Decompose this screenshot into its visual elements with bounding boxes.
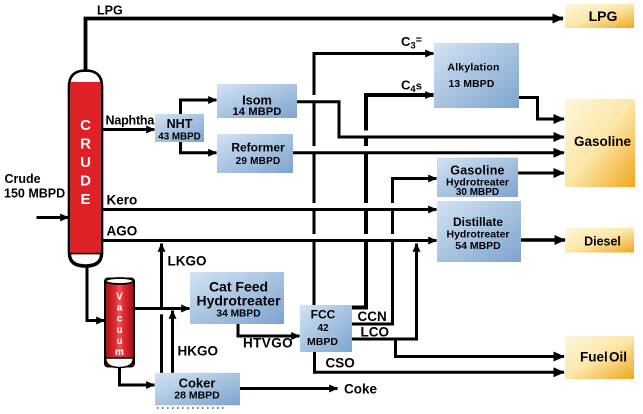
- svg-text:LPG: LPG: [97, 4, 123, 18]
- svg-text:Reformer: Reformer: [231, 141, 285, 155]
- svg-text:AGO: AGO: [107, 224, 138, 239]
- wire C4s : FCC right to Alkylation: [352, 95, 434, 308]
- box Isom: [217, 84, 297, 118]
- box NHT: [155, 114, 204, 143]
- wire CCN : FCC right to GHT: [352, 179, 437, 325]
- svg-text:HTVGO: HTVGO: [243, 336, 293, 351]
- box Cat Feed Hydrotreater: [190, 272, 284, 324]
- svg-text:Coke: Coke: [344, 382, 378, 397]
- dotted line under Coker: [157, 407, 227, 409]
- svg-text:C: C: [80, 117, 91, 134]
- svg-text:V: V: [116, 292, 123, 303]
- svg-text:Kero: Kero: [107, 193, 138, 208]
- svg-text:Naphtha: Naphtha: [106, 114, 156, 128]
- svg-text:E: E: [80, 191, 90, 208]
- product Gasoline: [565, 99, 635, 187]
- wire Reformer to Gasoline: [293, 151, 564, 154]
- svg-text:Diesel: Diesel: [584, 235, 621, 249]
- svg-text:28 MBPD: 28 MBPD: [174, 390, 220, 402]
- wire LCO : FCC right up to AGO line: [352, 244, 417, 340]
- svg-text:C4s: C4s: [401, 78, 422, 96]
- svg-text:m: m: [115, 347, 124, 358]
- wire C3= : FCC top to Alkylation: [314, 54, 434, 306]
- svg-text:a: a: [117, 303, 123, 314]
- svg-text:NHT: NHT: [167, 117, 193, 131]
- wire LCO branch to Fuel Oil: [396, 339, 565, 357]
- wire vacuum to Cat Feed Hydrotreater: [134, 307, 190, 310]
- wire crude feed arrow: [37, 216, 69, 219]
- wire crude bottom to vacuum: [87, 267, 105, 321]
- svg-text:13 MBPD: 13 MBPD: [448, 79, 494, 90]
- box Coker: [155, 373, 240, 406]
- box Distillate Hydrotreater: [437, 201, 521, 262]
- svg-text:42: 42: [317, 323, 329, 334]
- wire HKGO: coker top to CFH feed line: [171, 311, 174, 373]
- wire DHT to Diesel: [521, 238, 565, 241]
- wire NHT to Reformer: [181, 142, 217, 153]
- svg-text:150 MBPD: 150 MBPD: [4, 187, 65, 201]
- product Diesel: [565, 228, 634, 253]
- vacuum column: [105, 278, 134, 368]
- svg-text:LPG: LPG: [589, 8, 618, 24]
- wire NHT to Isom: [181, 100, 217, 114]
- svg-text:Hydrotreater: Hydrotreater: [196, 293, 281, 309]
- product LPG: [565, 4, 634, 28]
- vacuum column label: [115, 292, 124, 359]
- svg-text:14 MBPD: 14 MBPD: [232, 106, 281, 118]
- box Alkylation: [434, 43, 519, 108]
- wire GHT to Gasoline: [518, 172, 564, 175]
- svg-text:MBPD: MBPD: [307, 336, 338, 348]
- svg-text:u: u: [116, 325, 122, 336]
- wire vacuum bottom to Coker: [120, 368, 155, 386]
- svg-text:R: R: [80, 135, 91, 152]
- svg-text:HKGO: HKGO: [178, 344, 219, 359]
- svg-text:Hydrotreater: Hydrotreater: [446, 229, 509, 241]
- svg-text:CSO: CSO: [326, 356, 355, 371]
- svg-text:LKGO: LKGO: [168, 254, 207, 269]
- svg-text:Crude: Crude: [5, 172, 41, 186]
- svg-text:54 MBPD: 54 MBPD: [455, 240, 501, 252]
- svg-text:43 MBPD: 43 MBPD: [158, 132, 200, 143]
- svg-text:LCO: LCO: [361, 325, 390, 340]
- svg-text:Coker: Coker: [179, 376, 216, 391]
- svg-text:Alkylation: Alkylation: [447, 62, 499, 74]
- svg-text:CCN: CCN: [358, 309, 387, 324]
- product Fuel Oil: [565, 336, 634, 379]
- svg-text:C3=: C3=: [401, 34, 422, 52]
- svg-text:30 MBPD: 30 MBPD: [456, 187, 499, 198]
- wire HTVGO: CFH to FCC: [238, 324, 300, 336]
- svg-text:FCC: FCC: [311, 308, 336, 322]
- svg-text:c: c: [117, 314, 123, 325]
- wire Alkylation to Gasoline: [519, 98, 564, 120]
- wire LKGO: coker top to AGO line: [160, 314, 163, 373]
- svg-text:u: u: [116, 336, 122, 347]
- svg-text:34 MBPD: 34 MBPD: [216, 309, 260, 320]
- wire Kero: crude to DHT: [102, 208, 437, 211]
- wire LPG: crude top to LPG box: [86, 19, 564, 73]
- crude column label: [80, 117, 91, 208]
- svg-text:Gasoline: Gasoline: [450, 164, 504, 178]
- box FCC: [300, 305, 352, 352]
- wire Isom to Gasoline: [297, 102, 564, 137]
- svg-text:Distillate: Distillate: [453, 215, 503, 229]
- wire Naphtha: crude to NHT: [102, 128, 155, 131]
- box Gasoline Hydrotreater: [437, 158, 518, 199]
- wire Coke from coker: [240, 387, 338, 390]
- svg-text:D: D: [80, 173, 91, 190]
- box Reformer: [217, 134, 293, 173]
- svg-text:29 MBPD: 29 MBPD: [236, 156, 281, 167]
- wire AGO: crude to DHT: [102, 239, 437, 242]
- svg-text:U: U: [80, 154, 91, 171]
- svg-text:Gasoline: Gasoline: [574, 134, 632, 149]
- svg-text:Fuel Oil: Fuel Oil: [580, 350, 627, 365]
- wire CSO : FCC bottom to Fuel Oil: [315, 352, 565, 372]
- crude column: [69, 71, 102, 267]
